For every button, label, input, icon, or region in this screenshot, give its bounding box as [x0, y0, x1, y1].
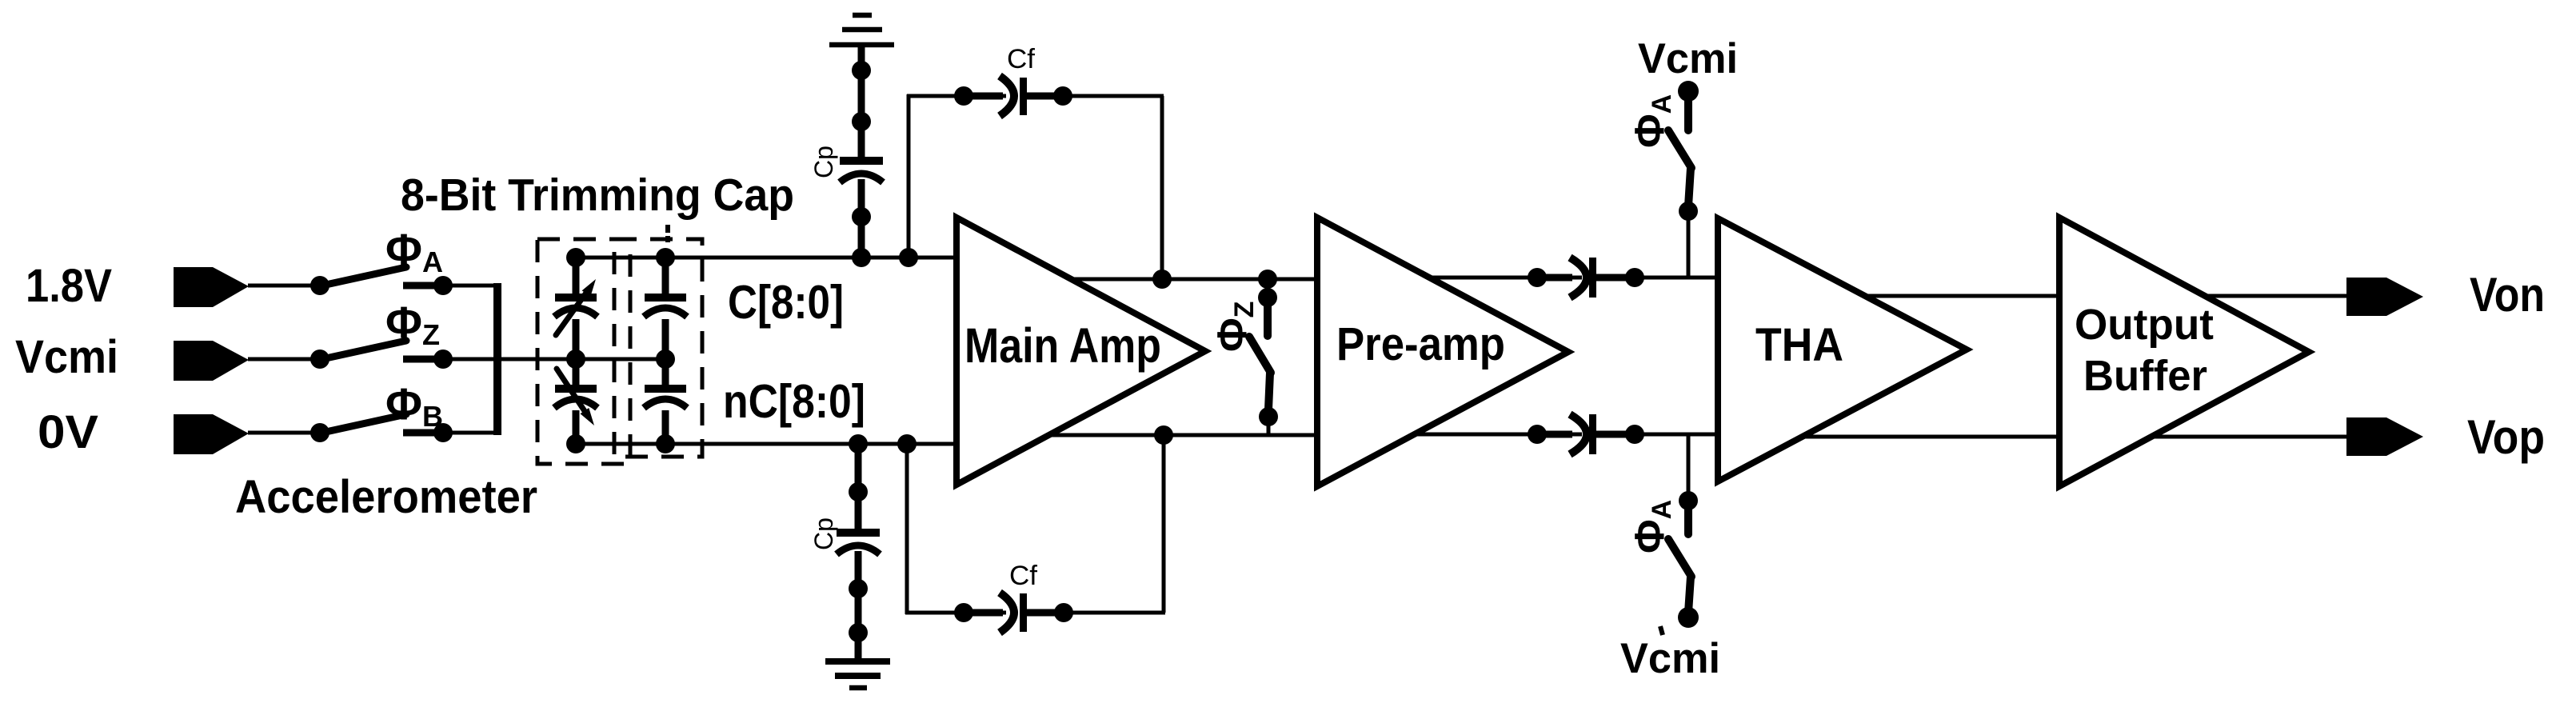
svg-text:Cf: Cf: [1007, 44, 1036, 74]
svg-text:8-Bit Trimming Cap: 8-Bit Trimming Cap: [401, 170, 794, 221]
op-amp U1 Main Amp: [957, 218, 1205, 485]
wire C[8:0] top rail to Main Amp: [576, 256, 960, 260]
wire Main Amp top output to Pre-amp: [1064, 278, 1320, 282]
capacitor fixed trim top-right: [662, 258, 669, 294]
node trim junction dots: [566, 248, 585, 267]
wire 0V switch to bus: [403, 431, 499, 435]
svg-text:Cp: Cp: [809, 146, 838, 178]
switch PhiA to Vcmi bottom: [1687, 434, 1691, 501]
wire THA bottom output to Output Buffer: [1783, 435, 2063, 439]
capacitor fixed trim bottom-right: [662, 359, 669, 385]
wire bus vertical bar: [493, 283, 501, 435]
svg-text:0V: 0V: [38, 406, 98, 458]
wire coupling cap to THA bottom input: [1596, 433, 1721, 437]
wire Pre-amp bottom output to coupling cap: [1392, 433, 1582, 437]
svg-text:Cf: Cf: [1009, 561, 1038, 591]
label PhiA top (rotated): [1627, 94, 1677, 148]
svg-text:Buffer: Buffer: [2083, 352, 2207, 400]
svg-text:Pre-amp: Pre-amp: [1336, 318, 1505, 370]
box dashed trimming right: [614, 239, 702, 457]
svg-text:Von: Von: [2470, 268, 2545, 322]
svg-text:1.8V: 1.8V: [26, 260, 112, 312]
switch PhiB input row 3: [310, 423, 329, 442]
svg-text:Vcmi: Vcmi: [1620, 635, 1720, 682]
wire THA top output to Output Buffer: [1839, 294, 2063, 298]
ground top (flipped): [853, 13, 872, 18]
capacitor Cf bottom feedback loop: [905, 444, 909, 614]
label Cp bottom (rotated): [809, 517, 838, 550]
label Vcmi bottom with prime: [1660, 626, 1663, 635]
svg-text:Cp: Cp: [809, 517, 838, 550]
wire Pre-amp top output to coupling cap: [1408, 276, 1582, 280]
wire coupling cap to THA top input: [1596, 276, 1721, 280]
wire Output Buffer top output to Von: [2159, 294, 2348, 298]
ground bottom: [825, 658, 890, 665]
wire 1.8V input row: [248, 284, 322, 288]
node input port Vcmi arrow: [174, 341, 249, 381]
svg-text:nC[8:0]: nC[8:0]: [723, 375, 865, 428]
node input port 0V arrow: [174, 414, 249, 454]
capacitor coupling top: [1528, 268, 1547, 287]
capacitor coupling bottom: [1528, 425, 1547, 444]
svg-text:Vcmi: Vcmi: [15, 331, 118, 383]
capacitor variable trim bottom-left: [573, 359, 580, 385]
switch PhiA input row 1: [310, 276, 329, 295]
svg-text:Vcmi: Vcmi: [1638, 35, 1738, 82]
wire Vcmi input row: [248, 357, 322, 361]
svg-text:C[8:0]: C[8:0]: [728, 276, 844, 329]
svg-text:Accelerometer: Accelerometer: [235, 471, 537, 523]
wire Vcmi switch to trimming network mid node: [403, 357, 665, 361]
node output port Vop arrow: [2346, 417, 2423, 456]
switch PhiZ between Main Amp and Pre-amp: [1258, 270, 1277, 289]
wire Main Amp bottom output to Pre-amp: [1040, 433, 1320, 437]
svg-text:Main Amp: Main Amp: [965, 318, 1161, 373]
label Cp top (rotated): [809, 146, 838, 178]
node dash-dot tick above trimming box: [665, 225, 670, 233]
capacitor Cp bottom: [849, 434, 868, 453]
capacitor Cf top feedback loop: [907, 94, 911, 258]
op-amp U4 Output Buffer: [2059, 218, 2309, 486]
node input port 1.8V arrow: [174, 267, 249, 307]
wire 1.8V switch to bus: [403, 284, 499, 288]
svg-text:Vop: Vop: [2467, 410, 2545, 464]
label PhiZ (rotated): [1209, 302, 1260, 352]
node output port Von arrow: [2346, 278, 2423, 316]
op-amp U2 Pre-amp: [1317, 218, 1568, 486]
svg-text:Output: Output: [2075, 301, 2214, 349]
wire nC[8:0] bottom rail to Main Amp: [576, 442, 960, 446]
op-amp U3 THA: [1718, 218, 1967, 481]
wire 0V input row: [248, 431, 322, 435]
label PhiA bottom (rotated): [1627, 500, 1677, 553]
capacitor variable trim top-left: [573, 258, 580, 294]
svg-text:THA: THA: [1755, 319, 1843, 371]
switch PhiZ input row 2: [310, 350, 329, 369]
wire Output Buffer bottom output to Vop: [2111, 435, 2348, 439]
capacitor Cp top: [858, 45, 865, 157]
box dashed trimming left: [537, 239, 630, 464]
